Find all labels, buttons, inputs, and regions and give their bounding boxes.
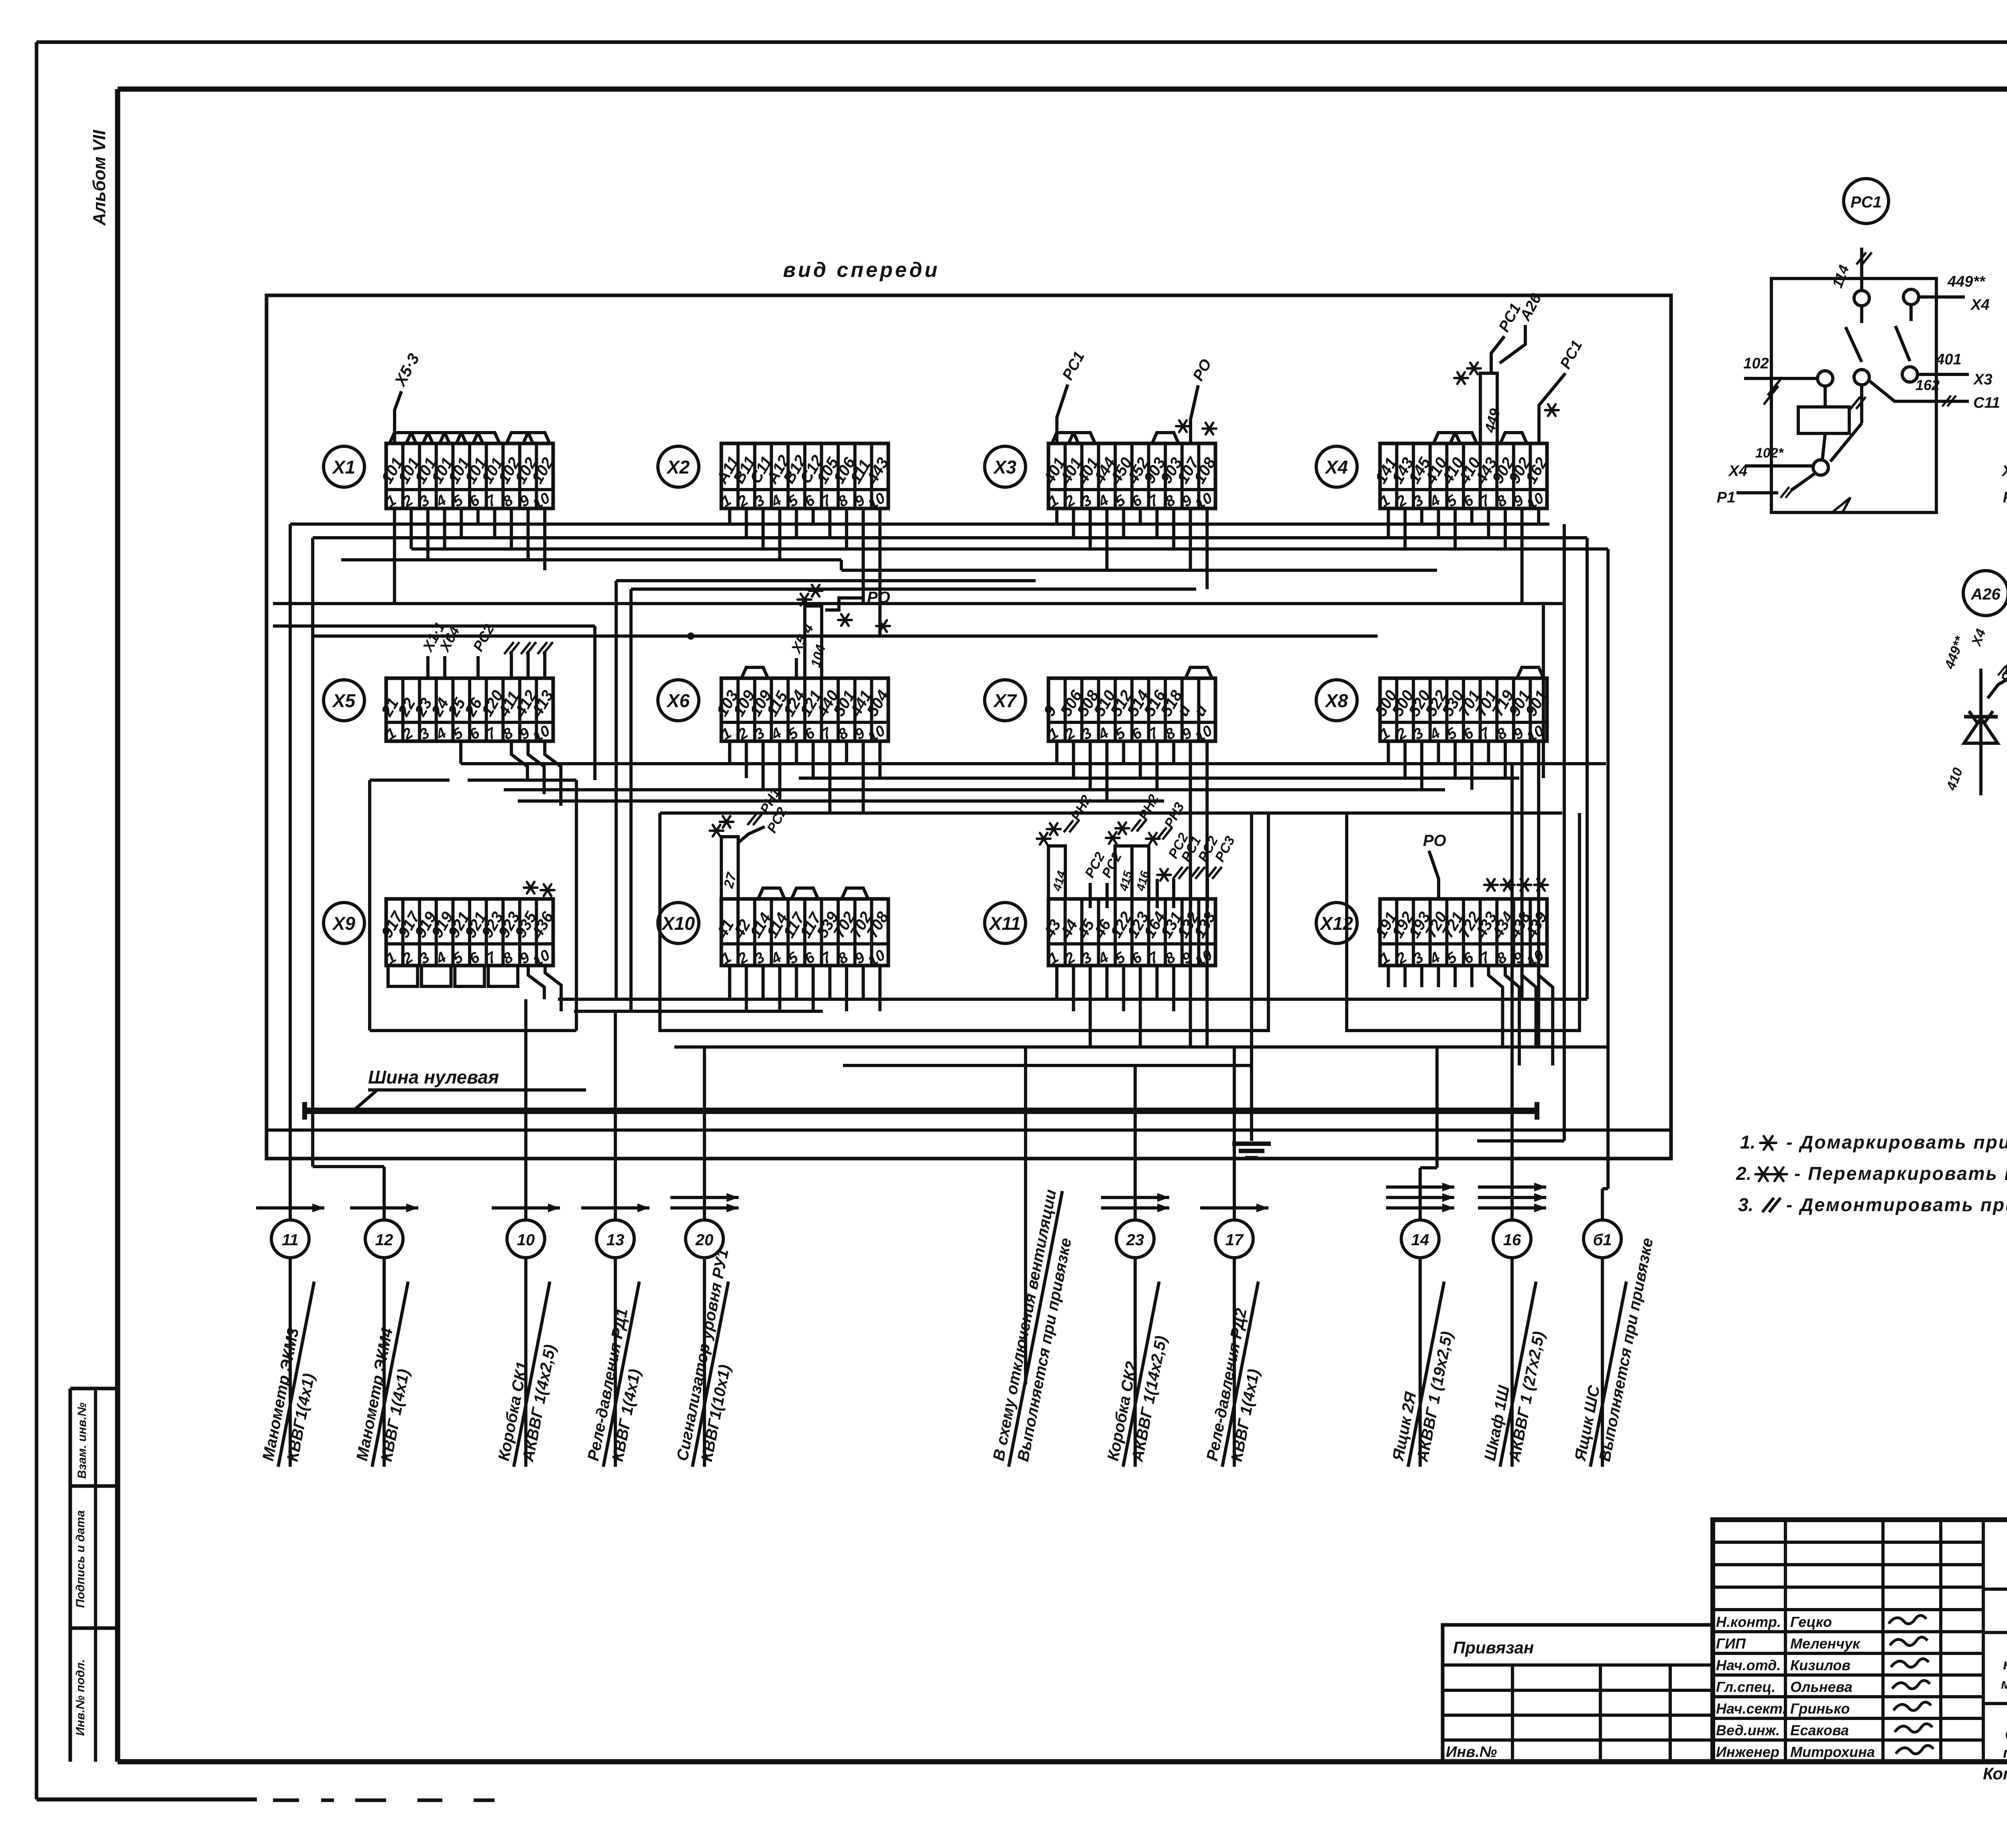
wire stub: [426, 508, 429, 560]
wire stub: [1387, 741, 1390, 764]
wire stub: [1172, 508, 1175, 549]
wire stub: [1537, 508, 1540, 524]
old label box 27 on X10 cell1: [721, 837, 738, 899]
wire stub: [1172, 966, 1175, 1011]
wire stub: [1189, 741, 1192, 999]
PC1 wire 102: [1744, 377, 1818, 380]
svg-text:б1: б1: [1593, 1231, 1612, 1249]
null bus (шина нулевая): [305, 1108, 1537, 1114]
wire jog cable 14: [1420, 1166, 1437, 1169]
wire drop to vent line: [1024, 1047, 1027, 1382]
wire stub: [878, 508, 881, 636]
jumper X3 2-3: [1069, 433, 1095, 443]
wire drop to cable 23: [1134, 1065, 1137, 1220]
svg-text:Подпись и дата: Подпись и дата: [74, 1510, 87, 1608]
wire stub: [1504, 508, 1507, 549]
signature squiggle: [1891, 1659, 1929, 1667]
jumper X4 8-9: [1500, 433, 1527, 443]
svg-text:20: 20: [695, 1231, 714, 1249]
demount mark: [521, 642, 536, 654]
wire stub: [510, 508, 513, 549]
svg-text:Х3: Х3: [1973, 371, 1992, 388]
wire stub: [1055, 741, 1058, 764]
wire right vertical short: [1542, 604, 1545, 778]
svg-text:Х1: Х1: [332, 457, 355, 478]
cable 10: [492, 1206, 560, 1210]
svg-text:102*: 102*: [1755, 445, 1784, 461]
wire stub: [728, 966, 731, 999]
svg-text:РС1: РС1: [1850, 193, 1882, 211]
jumper X1 8-9: [507, 433, 533, 443]
wire stub: [1139, 966, 1142, 1047]
wire bus line: [461, 762, 1606, 765]
PC1 stub 401 X3: [1917, 373, 1969, 376]
demount mark: [1762, 1198, 1781, 1212]
cable 17: [1200, 1206, 1268, 1210]
PC1 coil: [1798, 407, 1849, 433]
title block divider: [1983, 1702, 2007, 1705]
wire stub: [795, 508, 798, 538]
equipment box around X12: [1347, 813, 1580, 1031]
demount mark: [1850, 397, 1866, 409]
wire stub: [1155, 508, 1158, 538]
wire bus line: [574, 1010, 823, 1013]
outer sheet border: [37, 41, 2007, 44]
wire stub: [1470, 508, 1474, 524]
wire stub: [1122, 508, 1125, 538]
svg-text:Ольнева: Ольнева: [1790, 1679, 1852, 1695]
wire drop to cable 14: [1419, 1168, 1422, 1220]
wire stub: [862, 508, 865, 604]
terminal block circle label X1: [324, 446, 364, 487]
wire stub: [1189, 508, 1192, 570]
jumper X6 2-3: [741, 667, 768, 678]
cable 23: [1101, 1206, 1169, 1210]
A26 diode symbol: [1964, 718, 1998, 743]
wire stub: [728, 508, 731, 524]
cable wire: [1601, 1258, 1604, 1467]
wire bus line: [660, 811, 1562, 815]
wire stub: [443, 508, 446, 549]
tag X5-3 on X1 cell1: [395, 391, 401, 443]
terminal block circle label X9: [324, 903, 364, 943]
demount mark: [1173, 867, 1188, 879]
wire bus line: [799, 777, 1519, 780]
wire jog: [840, 560, 843, 570]
PC1 coil terminal bottom: [1813, 460, 1828, 475]
svg-text:Шина нулевая: Шина нулевая: [368, 1067, 499, 1088]
wire drop to cable 11: [289, 524, 292, 1220]
wire drop to cable 13: [614, 1011, 617, 1220]
old label box 416 on X11 cell6: [1132, 846, 1149, 899]
PC1 switch blade: [1846, 327, 1862, 362]
asterisk mark: [541, 884, 554, 896]
svg-text:Н.контр.: Н.контр.: [1716, 1614, 1781, 1630]
cable wire: [1134, 1258, 1137, 1467]
terminal block X9: [378, 899, 557, 970]
svg-text:Вед.инж.: Вед.инж.: [1716, 1722, 1780, 1738]
wire stub: [812, 508, 815, 524]
break mark: [1764, 377, 1782, 405]
terminal block circle label X8: [1316, 680, 1357, 721]
PC1 contact top1: [1854, 291, 1869, 306]
wire stub: [1089, 741, 1092, 790]
cable 61: [1584, 1220, 1621, 1258]
title block row: [1713, 1563, 1983, 1566]
cable 11: [256, 1206, 324, 1210]
asterisk mark: [1484, 879, 1498, 891]
svg-text:Р2: Р2: [2003, 489, 2007, 506]
wire drop to cable 20: [703, 1047, 706, 1220]
wire stub: [1504, 741, 1507, 778]
jumper X10 5-6: [792, 888, 818, 899]
demount mark: [1190, 867, 1205, 879]
svg-text:Схема электрическая: Схема электрическая: [2005, 1726, 2007, 1743]
svg-text:- Перемаркировать при монт: - Перемаркировать при монтаже.: [1794, 1163, 2007, 1184]
wire jog cable 61: [1602, 1187, 1608, 1190]
wire below bus: [268, 1128, 1671, 1132]
title block column: [1784, 1520, 1787, 1762]
wire bus line: [341, 558, 841, 561]
cable wire: [383, 1258, 386, 1467]
signature squiggle: [1892, 1680, 1930, 1689]
title block row: [1713, 1717, 1983, 1720]
svg-text:Х8: Х8: [1324, 690, 1348, 711]
wire bus line: [841, 569, 1437, 572]
wire stub: [1387, 508, 1390, 538]
svg-text:Инв.№: Инв.№: [1446, 1744, 1497, 1761]
wire stub: [878, 741, 881, 778]
PC1 coil terminal left: [1818, 371, 1833, 386]
wire stub: [761, 508, 765, 549]
PC1 contact right: [1902, 367, 1917, 382]
svg-text:подключений ящика 1Я: подключений ящика 1Я: [2003, 1744, 2007, 1761]
wire drop to cable 16: [1510, 764, 1514, 1220]
svg-text:10: 10: [517, 1231, 535, 1249]
svg-text:Есакова: Есакова: [1790, 1722, 1849, 1738]
wire stub: [828, 741, 831, 813]
svg-text:1.: 1.: [1740, 1132, 1755, 1153]
PC1 coil wire 114: [1860, 248, 1863, 291]
wire stub: [761, 741, 765, 790]
wire to ground: [1250, 813, 1253, 1141]
wire stub: [828, 966, 831, 999]
svg-text:16: 16: [1503, 1231, 1521, 1249]
wire stub: [1487, 508, 1490, 538]
demount mark: [1207, 867, 1222, 879]
wire stub: [862, 966, 865, 999]
terminal block circle label X10: [658, 903, 699, 943]
cable wire: [1419, 1258, 1422, 1467]
jumper X4 4-5: [1433, 433, 1460, 443]
asterisk mark: [838, 614, 852, 626]
asterisk mark: [710, 825, 723, 837]
svg-text:2.: 2.: [1736, 1163, 1751, 1184]
cable wire: [703, 1258, 706, 1467]
svg-text:Привязан: Привязан: [1453, 1638, 1534, 1657]
tag PC1 on X3 cell1: [1057, 384, 1068, 443]
break mark bottom: [1832, 498, 1866, 512]
terminal block X7: [1040, 667, 1215, 746]
svg-text:23: 23: [1126, 1231, 1144, 1249]
wire stub: [1420, 508, 1423, 524]
wire bus line: [313, 536, 1587, 539]
terminal block X5: [378, 678, 557, 746]
wire stub: [1155, 966, 1158, 999]
wire stub: [1403, 741, 1407, 778]
asterisk mark: [1545, 405, 1559, 416]
asterisk mark: [1771, 1167, 1787, 1181]
jumper X7 9-10: [1185, 667, 1212, 678]
asterisk mark: [798, 594, 811, 606]
svg-text:С11: С11: [1973, 394, 2000, 411]
terminal block circle label X12: [1316, 903, 1357, 943]
wire drop to cable 10: [524, 999, 527, 1220]
wire vertical: [629, 589, 633, 1011]
wire bus line: [674, 1045, 1608, 1049]
wire right vertical: [1606, 1047, 1610, 1189]
demount mark: [1856, 252, 1872, 264]
PC1 contact mid: [1854, 370, 1869, 385]
demount mark: [1131, 819, 1146, 831]
wire stub: [1072, 508, 1075, 538]
wire bus line: [518, 799, 1164, 803]
demount mark: [1781, 487, 1794, 498]
wire drop to cable 17: [1233, 1047, 1236, 1220]
wire stub: [1072, 966, 1075, 1011]
terminal block X2: [713, 443, 892, 513]
signature squiggle: [1896, 1745, 1934, 1754]
wire stub: [862, 741, 865, 813]
svg-text:102: 102: [1743, 355, 1769, 372]
jumper X1 2-3: [406, 433, 433, 443]
PC1 contact top2: [1903, 289, 1919, 305]
title block column: [1982, 1520, 1985, 1762]
wire stub: [460, 508, 463, 538]
wire stub: [1089, 966, 1092, 1047]
inner drawing frame: [118, 87, 2007, 92]
wire stub: [1420, 741, 1423, 790]
wire stub: [527, 508, 530, 560]
old label box 414 on X11 cell1: [1048, 846, 1065, 899]
panel outline box: [267, 295, 1671, 1159]
tag *PC1 on X4 cell10: [1539, 373, 1565, 443]
svg-text:401: 401: [1936, 351, 1961, 368]
wire bus line: [558, 998, 1587, 1001]
svg-text:Х10: Х10: [661, 913, 695, 934]
wire stub: [1122, 741, 1125, 764]
wire drop to cable 12: [311, 538, 314, 1167]
title block column: [1881, 1520, 1885, 1762]
wire stub: [795, 741, 798, 764]
jumper X10 8-9: [842, 888, 868, 899]
wire stub: [1055, 966, 1058, 999]
svg-text:Х2: Х2: [666, 457, 690, 478]
svg-text:Нач.сект.: Нач.сект.: [1716, 1700, 1786, 1717]
asterisk mark: [1157, 869, 1171, 881]
wire stub: [543, 508, 546, 570]
left column attribute cells: [69, 1389, 72, 1762]
wire stub: [1172, 741, 1175, 764]
wire stub: [845, 966, 848, 1011]
terminal block X1: [378, 433, 557, 513]
jumper X3 7-8: [1152, 433, 1179, 443]
terminal block circle label X2: [658, 446, 699, 487]
asterisk mark: [809, 585, 822, 597]
wire bus line: [273, 602, 1564, 605]
title block row: [1713, 1541, 1983, 1544]
wire bus line: [311, 634, 1378, 638]
cable wire: [524, 1258, 527, 1467]
jumper X3 1-2: [1052, 433, 1079, 443]
wire stub: [1477, 1139, 1564, 1143]
A26 RSD1 leader: [1988, 678, 2007, 698]
svg-text:Х4: Х4: [1970, 297, 1989, 313]
relay PC1: [1844, 179, 1889, 224]
asterisk mark: [1176, 421, 1190, 432]
svg-text:Митрохина: Митрохина: [1790, 1744, 1875, 1760]
title block column: [1939, 1520, 1942, 1762]
wire stub: [745, 508, 748, 538]
wire stub: [1055, 508, 1058, 524]
cable 12: [350, 1206, 418, 1210]
wire stub: [1205, 741, 1209, 1047]
wire stub: [1487, 741, 1490, 764]
privyazan table: [1443, 1625, 1713, 1762]
svg-text:Нач.отд.: Нач.отд.: [1716, 1657, 1781, 1673]
asterisk mark: [1037, 833, 1050, 845]
title block row: [1713, 1586, 1983, 1589]
svg-text:Х4: Х4: [1728, 463, 1747, 480]
wire stub: [1453, 508, 1457, 549]
terminal block X6: [713, 667, 892, 746]
PC1 stub 162 C11: [1869, 381, 1969, 401]
title block row: [1713, 1652, 1983, 1655]
demount mark: [1942, 396, 1956, 407]
wire bus line: [411, 547, 1608, 551]
cable wire: [1233, 1258, 1236, 1467]
svg-text:13: 13: [607, 1231, 625, 1249]
tag RN1 leader: [738, 827, 765, 843]
tag PO on X3 cell9: [1191, 385, 1198, 443]
terminal block circle label X4: [1316, 446, 1357, 487]
wire stub: [812, 966, 815, 1011]
wire stub: [828, 508, 831, 538]
cable wire: [614, 1258, 617, 1467]
wire stub: [812, 741, 815, 778]
wire stub: [1470, 741, 1474, 790]
wire stub: [745, 741, 748, 778]
wire vertical: [593, 626, 596, 780]
svg-text:- Домаркировать при монта: - Домаркировать при монтаже.: [1786, 1132, 2007, 1153]
wire right vertical: [1606, 549, 1610, 1047]
wire stub: [1437, 508, 1440, 538]
cable 14: [1386, 1206, 1454, 1210]
asterisk mark: [1146, 833, 1160, 845]
wire bus line: [843, 1064, 1252, 1067]
svg-text:12: 12: [375, 1231, 393, 1249]
terminal block circle label X11: [985, 903, 1026, 943]
wire stub: [728, 741, 731, 764]
svg-text:Х3: Х3: [993, 457, 1017, 478]
wire stub: [1105, 966, 1109, 999]
tag PC1 leader on 449: [1491, 336, 1504, 373]
asterisk mark: [1534, 879, 1548, 891]
svg-text:17: 17: [1225, 1231, 1244, 1249]
jumper loops below X9: [388, 966, 418, 986]
demount mark: [1998, 666, 2007, 675]
title block divider: [1983, 1588, 2007, 1591]
cable 16: [1478, 1206, 1546, 1210]
terminal block circle label X6: [658, 680, 699, 721]
svg-text:Копировал Ермакова: Копировал Ермакова: [1983, 1764, 2007, 1783]
asterisk mark: [876, 620, 890, 632]
asterisk mark: [1454, 372, 1468, 384]
wire stub: [1437, 741, 1440, 764]
terminal block X4: [1372, 433, 1551, 513]
wire stub: [1403, 508, 1407, 549]
wire stub: [845, 508, 848, 549]
svg-text:Р1: Р1: [1717, 489, 1735, 506]
svg-text:Гецко: Гецко: [1790, 1614, 1832, 1630]
wire drop to cable 12: [383, 1167, 386, 1220]
terminal block X11: [1040, 899, 1219, 970]
svg-text:мощностью 6тыс.тонн изделий в: мощностью 6тыс.тонн изделий в год.: [2001, 1676, 2007, 1692]
signature squiggle: [1889, 1615, 1926, 1624]
svg-text:ГИП: ГИП: [1716, 1635, 1746, 1652]
equipment box around X9: [370, 779, 450, 782]
cable wire: [289, 1258, 292, 1467]
title block row: [1713, 1608, 1983, 1611]
svg-text:Гл.спец.: Гл.спец.: [1716, 1679, 1775, 1695]
wire stub: [1089, 508, 1092, 549]
jumper X1 3-4: [423, 433, 450, 443]
tag PO leader on X6: [825, 598, 863, 610]
svg-text:Х7: Х7: [993, 690, 1018, 711]
jumper X4 5-6: [1450, 433, 1477, 443]
svg-text:Инв.№ подл.: Инв.№ подл.: [74, 1659, 87, 1736]
jumper X1 5-6: [456, 433, 483, 443]
demount mark: [1064, 820, 1079, 832]
wire stub: [1139, 508, 1142, 524]
PC1 stub X4 102*: [1745, 464, 1813, 468]
svg-text:11: 11: [282, 1231, 299, 1249]
tag A26 leader on 449: [1500, 325, 1525, 363]
terminal block X12: [1372, 899, 1551, 970]
cable 13: [581, 1206, 649, 1210]
wire bus line: [616, 579, 1036, 582]
wire stub: [761, 966, 765, 999]
svg-text:ной оснастки и инвентаря: ной оснастки и инвентаря: [2003, 1656, 2007, 1673]
asterisk mark: [1106, 832, 1120, 844]
wire vertical: [615, 581, 618, 999]
asterisk mark: [1518, 879, 1531, 891]
wire stub: [878, 966, 881, 1011]
svg-text:А26: А26: [1970, 586, 2001, 603]
asterisk mark: [524, 882, 537, 894]
wire stub: [745, 966, 748, 1011]
asterisk mark: [1501, 879, 1514, 891]
signature squiggle: [1893, 1702, 1931, 1710]
title block divider: [1983, 1631, 2007, 1634]
wire drop to cable 61: [1601, 1189, 1604, 1220]
svg-text:Гринько: Гринько: [1790, 1700, 1850, 1717]
vent connection label: [1024, 1382, 1027, 1384]
wire stub: [795, 966, 798, 999]
wire bus line: [273, 624, 595, 628]
asterisk mark: [1115, 823, 1129, 834]
equipment box around X10 X11: [660, 813, 1268, 1031]
